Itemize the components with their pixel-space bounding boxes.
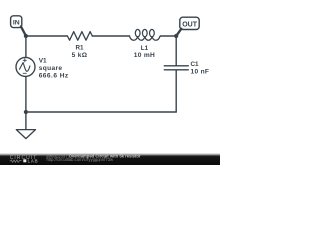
- wire top left: [26, 35, 68, 37]
- footer bar: [0, 153, 220, 165]
- svg-text:IN: IN: [13, 19, 20, 26]
- wire left lower: [25, 77, 27, 112]
- capacitor C1: [164, 66, 188, 70]
- wire bottom: [26, 111, 176, 113]
- wire top right: [161, 35, 177, 37]
- wire right upper: [175, 36, 177, 65]
- source V1: [16, 57, 35, 76]
- node OUT flag: [176, 17, 199, 36]
- resistor R1: [67, 32, 92, 41]
- svg-text:L1: L1: [141, 45, 149, 52]
- footer logo wave: [10, 160, 22, 162]
- junction top right: [174, 34, 178, 38]
- wire top middle: [92, 35, 129, 37]
- wire right lower: [175, 71, 177, 113]
- junction bottom left: [24, 110, 28, 114]
- svg-text:square: square: [39, 65, 63, 72]
- svg-text:OUT: OUT: [182, 21, 198, 28]
- wire to ground: [25, 112, 27, 129]
- ground: [16, 130, 35, 139]
- wire left upper: [25, 36, 27, 57]
- svg-text:http://circuitlab.com/c/ryyggq: http://circuitlab.com/c/ryyggqnnf73w: [47, 157, 115, 162]
- node IN flag: [11, 16, 26, 36]
- svg-text:666.6 Hz: 666.6 Hz: [39, 73, 69, 80]
- svg-text:C1: C1: [191, 61, 200, 68]
- svg-text:10 mH: 10 mH: [134, 52, 155, 59]
- svg-text:5 kΩ: 5 kΩ: [72, 52, 88, 59]
- svg-text:LAB: LAB: [28, 158, 39, 163]
- svg-text:V1: V1: [39, 58, 47, 65]
- footer logo LAB: [23, 159, 26, 162]
- inductor L1: [130, 29, 161, 40]
- junction top left: [24, 34, 28, 38]
- svg-text:R1: R1: [75, 45, 84, 52]
- svg-text:10 nF: 10 nF: [191, 68, 210, 75]
